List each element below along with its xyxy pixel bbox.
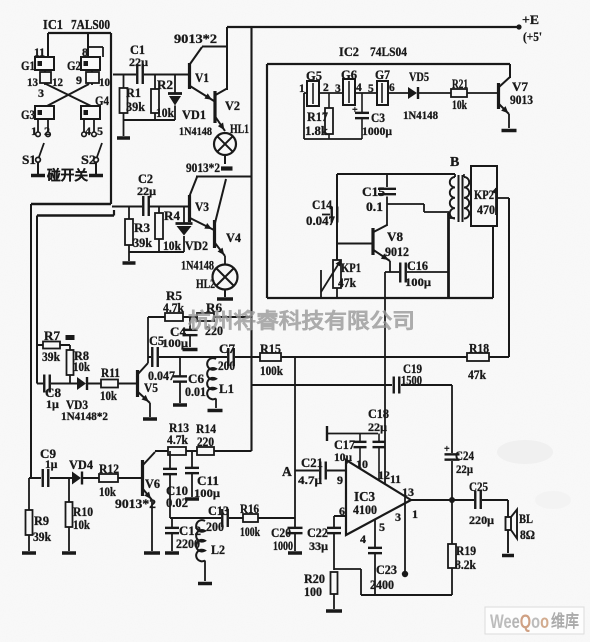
svg-text:0.1: 0.1 [366, 200, 383, 214]
svg-text:1000: 1000 [273, 539, 293, 553]
svg-text:C7: C7 [219, 342, 235, 356]
svg-text:V4: V4 [226, 230, 241, 245]
svg-text:0.047: 0.047 [306, 214, 335, 228]
svg-text:R3: R3 [134, 221, 150, 235]
svg-text:5: 5 [368, 83, 374, 95]
svg-text:10k: 10k [73, 518, 90, 532]
svg-text:V3: V3 [195, 199, 209, 214]
svg-text:HL2: HL2 [196, 276, 215, 291]
svg-text:5: 5 [97, 124, 103, 138]
svg-text:1N4148: 1N4148 [403, 108, 438, 122]
svg-text:G1: G1 [21, 58, 35, 73]
svg-text:100k: 100k [240, 525, 260, 539]
svg-text:1: 1 [299, 83, 305, 95]
svg-text:10k: 10k [99, 485, 116, 499]
svg-text:3: 3 [395, 510, 401, 524]
svg-text:200: 200 [218, 359, 235, 373]
svg-text:R20: R20 [304, 572, 325, 586]
svg-text:4.7μ: 4.7μ [298, 473, 322, 487]
svg-text:R4: R4 [164, 209, 181, 223]
svg-text:11: 11 [34, 45, 45, 59]
svg-text:8.2k: 8.2k [455, 558, 476, 572]
svg-text:39k: 39k [42, 350, 60, 364]
svg-text:C23: C23 [376, 563, 397, 577]
svg-text:R11: R11 [101, 366, 120, 380]
svg-text:1: 1 [31, 124, 37, 138]
svg-text:3: 3 [38, 86, 44, 100]
svg-text:维库: 维库 [551, 611, 579, 631]
svg-text:220: 220 [197, 435, 214, 449]
svg-text:39k: 39k [33, 530, 51, 544]
svg-text:R9: R9 [34, 514, 49, 528]
svg-text:C20: C20 [271, 526, 291, 540]
svg-text:C21: C21 [301, 456, 323, 470]
svg-text:R14: R14 [196, 422, 217, 436]
svg-text:(+5': (+5' [523, 30, 542, 44]
svg-text:+: + [352, 105, 358, 116]
svg-text:1000μ: 1000μ [362, 124, 392, 138]
svg-text:100k: 100k [260, 364, 283, 378]
svg-text:9013: 9013 [510, 93, 533, 107]
svg-text:9: 9 [337, 473, 343, 487]
svg-text:VD2: VD2 [185, 239, 208, 253]
svg-text:C18: C18 [368, 407, 389, 421]
svg-text:10μ: 10μ [334, 450, 352, 464]
svg-text:S2: S2 [81, 152, 96, 167]
svg-text:10k: 10k [452, 98, 467, 112]
svg-text:R2: R2 [157, 78, 173, 92]
svg-text:33μ: 33μ [309, 539, 328, 553]
svg-text:HL1: HL1 [230, 121, 249, 136]
svg-text:100μ: 100μ [194, 486, 220, 500]
svg-text:10: 10 [99, 75, 110, 89]
svg-text:8Ω: 8Ω [520, 528, 535, 542]
svg-text:VD5: VD5 [409, 70, 429, 84]
svg-text:39k: 39k [126, 100, 145, 114]
svg-text:C15: C15 [362, 185, 385, 199]
svg-text:R17: R17 [307, 110, 328, 124]
svg-text:G7: G7 [375, 68, 390, 82]
svg-text:2: 2 [323, 82, 329, 94]
svg-text:V6: V6 [145, 476, 160, 491]
svg-text:1N4148: 1N4148 [181, 259, 214, 273]
svg-text:+E: +E [522, 12, 539, 27]
svg-text:1.8k: 1.8k [305, 124, 328, 138]
svg-text:22μ: 22μ [368, 420, 387, 434]
svg-text:0.01: 0.01 [185, 385, 206, 399]
svg-text:A: A [282, 464, 292, 479]
svg-text:11: 11 [390, 472, 401, 486]
svg-text:12: 12 [378, 468, 390, 482]
svg-text:4: 4 [360, 532, 366, 546]
svg-text:WeeQoo: WeeQoo [490, 612, 549, 633]
svg-text:100μ: 100μ [162, 336, 188, 350]
svg-text:IC1: IC1 [43, 17, 63, 32]
svg-text:C14: C14 [312, 198, 333, 212]
svg-text:0.047: 0.047 [148, 369, 175, 383]
svg-text:L2: L2 [211, 542, 225, 557]
svg-text:V7: V7 [512, 79, 529, 94]
svg-text:22μ: 22μ [129, 55, 148, 69]
svg-text:100μ: 100μ [405, 275, 431, 289]
svg-text:10k: 10k [100, 389, 117, 403]
svg-text:V8: V8 [387, 229, 404, 244]
svg-text:1μ: 1μ [45, 459, 58, 471]
svg-text:S1: S1 [22, 152, 36, 167]
svg-text:V2: V2 [225, 98, 240, 113]
svg-text:+: + [444, 444, 450, 455]
svg-text:G6: G6 [341, 68, 357, 82]
svg-text:6: 6 [389, 82, 395, 94]
svg-text:7ALS00: 7ALS00 [71, 17, 110, 32]
svg-text:4: 4 [356, 82, 362, 94]
svg-text:13: 13 [402, 485, 414, 499]
svg-text:G3: G3 [21, 107, 35, 122]
svg-text:R12: R12 [99, 462, 119, 476]
svg-text:IC2: IC2 [339, 44, 359, 59]
svg-text:G2: G2 [67, 58, 81, 73]
svg-text:0.02: 0.02 [166, 496, 188, 510]
svg-text:C6: C6 [188, 372, 204, 386]
svg-text:3: 3 [335, 83, 341, 95]
svg-text:KP1: KP1 [341, 261, 361, 275]
svg-text:220μ: 220μ [469, 513, 494, 527]
svg-text:G5: G5 [306, 69, 322, 83]
svg-text:4100: 4100 [353, 502, 377, 517]
svg-text:V1: V1 [195, 70, 209, 85]
svg-text:9013*2: 9013*2 [174, 32, 217, 46]
svg-text:9013*2: 9013*2 [115, 497, 156, 511]
svg-text:13: 13 [27, 75, 38, 89]
svg-text:C22: C22 [307, 526, 328, 540]
svg-text:22μ: 22μ [137, 184, 156, 198]
svg-text:R18: R18 [469, 342, 489, 356]
svg-text:C16: C16 [407, 259, 428, 273]
svg-text:2: 2 [44, 124, 50, 138]
svg-text:10k: 10k [156, 106, 174, 120]
svg-text:BL: BL [519, 511, 533, 526]
svg-text:4: 4 [85, 124, 91, 138]
svg-text:R19: R19 [456, 544, 476, 558]
svg-text:47k: 47k [468, 368, 486, 382]
svg-text:R15: R15 [260, 342, 281, 356]
svg-text:R7: R7 [44, 329, 60, 343]
svg-text:VD4: VD4 [69, 458, 94, 472]
svg-text:G4: G4 [95, 93, 109, 108]
svg-text:47k: 47k [338, 276, 356, 290]
svg-text:470: 470 [477, 203, 495, 217]
svg-text:C24: C24 [455, 449, 475, 463]
svg-text:1N4148*2: 1N4148*2 [61, 409, 108, 423]
svg-text:9: 9 [76, 73, 82, 87]
svg-text:4.7k: 4.7k [163, 301, 184, 315]
svg-text:KP2: KP2 [474, 188, 494, 202]
svg-text:C13: C13 [208, 504, 229, 518]
svg-text:VD1: VD1 [182, 108, 206, 122]
svg-text:碰开关: 碰开关 [47, 167, 89, 183]
svg-text:R1: R1 [126, 86, 141, 100]
svg-text:1N4148: 1N4148 [179, 124, 212, 138]
svg-text:5: 5 [379, 520, 385, 534]
svg-text:22μ: 22μ [456, 462, 473, 476]
svg-text:1μ: 1μ [46, 397, 59, 411]
svg-text:杭州将睿科技有限公司: 杭州将睿科技有限公司 [188, 309, 415, 333]
svg-text:L1: L1 [219, 381, 234, 396]
svg-text:12: 12 [52, 75, 63, 89]
svg-text:200: 200 [206, 520, 224, 534]
svg-text:2400: 2400 [370, 578, 394, 592]
svg-text:C25: C25 [469, 480, 488, 494]
svg-text:39k: 39k [133, 236, 152, 250]
svg-text:6: 6 [339, 504, 345, 518]
svg-text:8: 8 [82, 45, 88, 59]
svg-text:R21: R21 [452, 77, 468, 91]
svg-text:C3: C3 [371, 111, 385, 125]
svg-text:10: 10 [356, 457, 368, 471]
svg-text:9013*2: 9013*2 [186, 161, 220, 175]
svg-text:74LS04: 74LS04 [370, 44, 407, 59]
svg-text:C5: C5 [149, 334, 164, 348]
svg-text:10k: 10k [73, 360, 90, 374]
svg-text:1: 1 [412, 507, 418, 521]
svg-text:R10: R10 [73, 505, 93, 519]
svg-text:4.7k: 4.7k [167, 433, 188, 447]
svg-text:100: 100 [304, 585, 322, 599]
svg-text:B: B [450, 155, 459, 170]
svg-text:R16: R16 [240, 502, 259, 516]
svg-text:10k: 10k [163, 239, 181, 253]
svg-text:1500: 1500 [401, 374, 422, 388]
svg-text:9012: 9012 [385, 245, 409, 259]
